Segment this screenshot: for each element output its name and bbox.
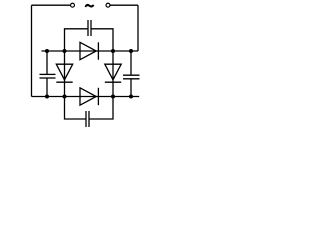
diode D3 left (points down) xyxy=(56,64,72,82)
wire AC top-left horizontal xyxy=(32,4,71,6)
wire right capacitor column lower xyxy=(130,79,132,97)
diode D1 top (points right) xyxy=(80,42,98,59)
capacitor C1 top (plates) xyxy=(88,20,91,36)
node dot BR junction xyxy=(111,95,115,99)
terminal circle AC right xyxy=(106,3,110,7)
capacitor C4 right (plates) xyxy=(123,75,140,79)
node dot lower rail / right cap xyxy=(129,95,133,99)
node dot BL junction xyxy=(63,95,67,99)
diode D4 right (points down) xyxy=(105,64,121,82)
wire bottom capacitor branch right xyxy=(89,97,113,120)
node dot lower rail / left cap xyxy=(45,95,49,99)
diode D2 bottom (points right) xyxy=(80,88,98,105)
wire bottom capacitor branch left xyxy=(65,97,87,120)
wire AC top-right horizontal xyxy=(110,4,138,6)
wire AC left vertical drop xyxy=(31,5,33,96)
node dot TR junction xyxy=(111,49,115,53)
wire left capacitor column lower xyxy=(46,78,48,97)
wire top capacitor branch left xyxy=(65,29,89,51)
wire right diode column xyxy=(112,51,114,97)
wire left diode column xyxy=(64,51,66,97)
AC source tilde symbol xyxy=(85,4,95,8)
wire left capacitor column upper xyxy=(46,51,48,74)
wire right capacitor column upper xyxy=(130,51,132,75)
node dot upper rail / right cap xyxy=(129,49,133,53)
capacitor C2 bottom (plates) xyxy=(86,111,89,127)
wire AC right vertical drop xyxy=(137,5,139,51)
wire lower rail xyxy=(32,96,140,98)
wire upper rail xyxy=(42,50,139,52)
capacitor C3 left (plates) xyxy=(40,74,56,78)
node dot upper rail / left cap xyxy=(45,49,49,53)
terminal circle AC left xyxy=(71,3,75,7)
wire top capacitor branch right xyxy=(91,29,113,51)
node dot TL junction xyxy=(63,49,67,53)
